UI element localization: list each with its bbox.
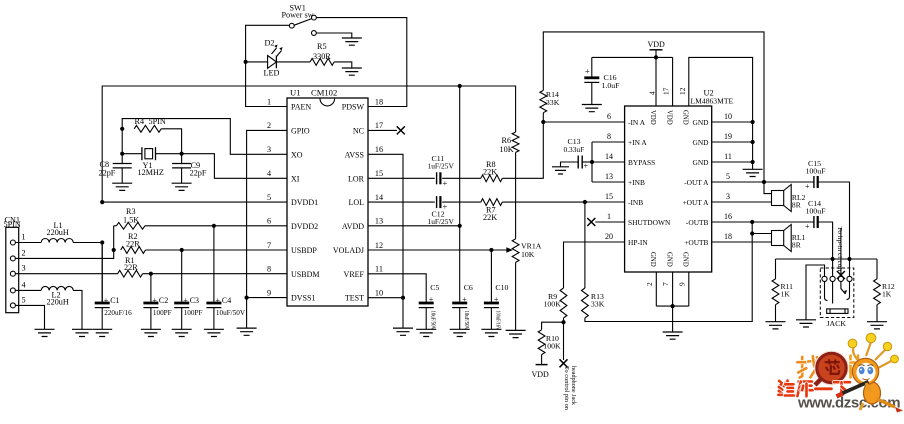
wire VDD rail to C16 and pin17: [592, 56, 673, 58]
wire DVSS1 row: [247, 297, 287, 299]
connector CN1 5PIN: [6, 227, 19, 312]
svg-text:8: 8: [607, 132, 611, 141]
ground at R11: [766, 322, 786, 329]
ground at R5: [342, 68, 362, 75]
svg-text:16: 16: [724, 212, 732, 221]
watermark zhao char: [800, 357, 803, 378]
svg-text:+: +: [443, 178, 448, 188]
svg-text:CM102: CM102: [311, 87, 337, 97]
svg-text:+: +: [805, 182, 810, 191]
svg-text:VDD: VDD: [532, 370, 550, 379]
svg-text:LOR: LOR: [348, 174, 365, 183]
node TEST junction: [401, 296, 405, 300]
node GND bus junction: [671, 304, 675, 308]
svg-text:100PF: 100PF: [184, 309, 203, 317]
ground at L2: [72, 329, 92, 336]
wire LOL row: [368, 201, 435, 203]
wire R2 to USBDP: [145, 249, 287, 251]
wire DVSS to ground: [246, 298, 248, 329]
LED D2: [268, 56, 277, 69]
crystal Y1 12MHZ: [122, 153, 142, 155]
node R2 left junction: [112, 248, 116, 252]
ground at VR1A: [506, 330, 526, 337]
svg-text:10: 10: [724, 112, 732, 121]
wire CN1 pin2 jog to R2: [15, 250, 113, 258]
svg-text:1uF/25V: 1uF/25V: [428, 217, 455, 226]
svg-text:C5: C5: [430, 283, 439, 292]
U2 pin 15 -INB wire: [585, 201, 625, 203]
ground at C4: [204, 329, 224, 336]
svg-text:330R: 330R: [313, 52, 331, 61]
svg-text:AVDD: AVDD: [342, 222, 364, 231]
svg-text:100uF: 100uF: [806, 166, 827, 175]
wire AVSS to ground vertical: [368, 154, 403, 297]
svg-text:100uF: 100uF: [806, 207, 827, 216]
node R4 left: [120, 127, 124, 131]
watermark magnifier: [817, 354, 845, 382]
svg-text:11: 11: [724, 152, 732, 161]
ground at C13: [552, 167, 569, 174]
capacitor C3 100PF: [181, 250, 183, 302]
svg-text:GPIO: GPIO: [291, 126, 310, 135]
svg-text:LM4863MTE: LM4863MTE: [691, 97, 734, 106]
svg-text:DVDD1: DVDD1: [291, 198, 318, 207]
capacitor C6 10uF/50V: [452, 302, 467, 305]
wire -OUTB to speaker RL1: [751, 222, 753, 234]
svg-text:16: 16: [375, 145, 383, 154]
wire CN1 pin5 to ground: [15, 305, 44, 329]
wire SW1 to PDSW pin18: [316, 18, 407, 107]
speaker RL2 8R: [772, 191, 784, 206]
ground at C2: [141, 329, 161, 336]
jack contact 2: [830, 276, 835, 281]
svg-text:220uH: 220uH: [47, 228, 69, 237]
wire TEST row: [368, 297, 403, 299]
svg-text:+OUTB: +OUTB: [684, 238, 708, 247]
svg-text:7: 7: [661, 282, 670, 286]
wire R5 to ground: [334, 62, 352, 68]
ground at DVSS1: [237, 328, 257, 335]
svg-text:GND: GND: [682, 110, 689, 125]
capacitor C14 100uF: [813, 216, 815, 228]
wire R4 right down: [161, 129, 181, 154]
resistor R3 1.5K: [114, 225, 117, 227]
ground at C3: [172, 329, 192, 336]
svg-text:XO: XO: [291, 150, 303, 159]
wire C11 to R8: [442, 177, 481, 179]
svg-text:+ C3: + C3: [183, 296, 199, 305]
node -INA junction: [541, 120, 545, 124]
node C15 rail junction: [847, 257, 851, 261]
svg-text:33K: 33K: [591, 300, 605, 309]
wire VDD rail top: [102, 86, 515, 202]
watermark pian char: [848, 356, 852, 378]
wire R13 to -OUTB vertical: [585, 234, 752, 322]
wire C12 to R7: [442, 201, 481, 203]
resistor R13 33K: [582, 288, 589, 318]
capacitor C8 22pF: [121, 154, 123, 164]
node R9 bottom junction: [563, 318, 565, 322]
svg-text:+ C4: + C4: [215, 296, 231, 305]
resistor R14 33K: [540, 90, 547, 112]
wire VOLADJ row: [368, 249, 511, 251]
svg-text:10: 10: [375, 288, 383, 297]
svg-text:To hp-in circuit: To hp-in circuit: [836, 227, 842, 272]
node C2 junction: [149, 272, 153, 276]
CN1 pin 1: [10, 240, 15, 245]
wire U2 pin17 drop: [672, 57, 674, 106]
ground at C16: [582, 105, 602, 112]
wire PDSW box to R14: [543, 32, 764, 182]
wire GND bus to ground: [672, 306, 674, 332]
svg-text:11: 11: [375, 265, 383, 274]
ground at jack pin1: [796, 320, 816, 327]
wire U2 pin12 GND route: [689, 57, 753, 121]
svg-text:+ C1: + C1: [104, 296, 120, 305]
svg-text:0.33uF: 0.33uF: [564, 145, 585, 154]
svg-text:100K: 100K: [543, 342, 561, 351]
svg-text:PAEN: PAEN: [291, 103, 311, 112]
X no-connect hp-in: [837, 271, 845, 279]
svg-text:GND: GND: [692, 118, 709, 127]
connector JACK dashed outline: [820, 268, 854, 318]
node C4 junction: [212, 224, 216, 228]
svg-text:22R: 22R: [124, 263, 138, 272]
svg-text:12: 12: [375, 241, 383, 250]
node AVDD junction: [458, 224, 462, 228]
svg-text:XI: XI: [291, 174, 300, 183]
CN1 pin 2: [10, 256, 15, 261]
capacitor C16 1.0uF: [591, 57, 593, 76]
node C13 junction: [590, 160, 594, 164]
ground at C10: [481, 329, 501, 336]
svg-text:5PIN: 5PIN: [149, 117, 166, 126]
svg-text:8R: 8R: [792, 201, 802, 210]
wire C14 to jack rail: [818, 222, 833, 259]
svg-text:C10: C10: [495, 283, 508, 292]
jack contact 2 stub: [832, 259, 834, 276]
capacitor C13 0.33uF: [582, 161, 592, 163]
svg-text:100PF: 100PF: [153, 309, 172, 317]
ground at TEST: [393, 328, 413, 335]
capacitor C4 10uF/50V: [213, 226, 215, 302]
svg-text:2: 2: [22, 248, 26, 257]
svg-text:DVDD2: DVDD2: [291, 222, 318, 231]
svg-text:-IN A: -IN A: [628, 118, 646, 127]
node -OUTA junction: [762, 180, 766, 184]
U2 pin 18 +OUTB wire: [712, 241, 772, 243]
svg-text:Power sw: Power sw: [282, 10, 314, 19]
svg-text:1.5K: 1.5K: [123, 215, 139, 224]
svg-text:+IN A: +IN A: [628, 138, 647, 147]
node crystal left: [120, 152, 124, 156]
svg-text:+OUT A: +OUT A: [682, 198, 709, 207]
jack contact 4 stub: [849, 259, 851, 276]
svg-text:R6: R6: [502, 136, 512, 145]
svg-text:U1: U1: [290, 87, 301, 97]
svg-text:-INB: -INB: [628, 198, 643, 207]
node DVSS junction: [245, 296, 249, 300]
svg-text:10uF/50V: 10uF/50V: [216, 309, 246, 317]
jack pin 1 to ground: [806, 265, 825, 320]
svg-text:100K: 100K: [544, 300, 562, 309]
capacitor C5 10uF/50V: [419, 302, 434, 305]
svg-text:1uF/25V: 1uF/25V: [428, 162, 455, 171]
jack internal contacts: [825, 282, 828, 301]
svg-text:C6: C6: [464, 283, 473, 292]
wire -OUTA to speaker RL2: [764, 182, 772, 194]
svg-text:+: +: [805, 222, 810, 231]
node crystal right: [180, 152, 184, 156]
svg-text:3: 3: [22, 264, 26, 273]
svg-text:+ C2: + C2: [152, 296, 168, 305]
capacitor C12 1uF/25V: [436, 196, 438, 208]
svg-text:4: 4: [22, 280, 26, 289]
node -OUTB junction: [750, 220, 754, 224]
wire XO loop top: [122, 119, 287, 155]
U2 pin 20 HP-IN wire: [564, 242, 625, 288]
ground at C6: [450, 329, 470, 336]
potentiometer VR1A 10K: [512, 239, 519, 263]
svg-text:6: 6: [267, 217, 271, 226]
resistor R11 1K: [775, 259, 777, 279]
svg-text:BYPASS: BYPASS: [628, 158, 655, 167]
svg-text:8: 8: [267, 265, 271, 274]
svg-text:NC: NC: [353, 126, 364, 135]
svg-text:22R: 22R: [126, 239, 140, 248]
capacitor C2 100PF: [150, 274, 152, 302]
node DVDD1 rail junction: [100, 200, 104, 204]
svg-text:DVSS1: DVSS1: [291, 294, 315, 303]
jack contact 4: [847, 276, 852, 281]
svg-text:AVSS: AVSS: [345, 150, 364, 159]
svg-text:VOLADJ: VOLADJ: [333, 246, 364, 255]
power VDD at R10: [541, 355, 543, 365]
U2 pin 14 BYPASS wire: [592, 161, 625, 163]
svg-text:5: 5: [267, 193, 271, 202]
wire R9 to R10: [542, 322, 564, 330]
svg-text:12MHZ: 12MHZ: [138, 168, 164, 177]
svg-text:+: +: [462, 295, 467, 304]
CN1 pin 3: [10, 271, 15, 276]
inductor L1 220uH: [41, 239, 73, 243]
wire CN1 pin1 to L1: [15, 242, 41, 244]
resistor R6 10K: [515, 131, 517, 133]
svg-text:+: +: [584, 162, 589, 171]
wire -OUTB to C14: [752, 221, 814, 223]
X no-connect headphone control: [560, 359, 568, 367]
wire crystal row left: [121, 129, 123, 154]
resistor R2 22R: [121, 247, 146, 254]
capacitor C1 220uF/16: [101, 243, 103, 302]
node VDD-rail / AVDD junction: [458, 84, 462, 88]
jack contact 3: [838, 276, 843, 281]
svg-text:6: 6: [607, 112, 611, 121]
wire GPIO to DVSS vertical: [247, 130, 287, 297]
svg-text:5: 5: [726, 172, 730, 181]
capacitor C11 1uF/25V: [436, 172, 438, 184]
capacitor C9 22pF: [181, 154, 183, 164]
svg-text:TEST: TEST: [345, 294, 364, 303]
op-amp U1 CM102 body: [287, 98, 368, 306]
svg-text:PDSW: PDSW: [342, 103, 365, 112]
svg-text:2: 2: [267, 121, 271, 130]
svg-text:18: 18: [724, 232, 732, 241]
wire hp-in line to jack: [840, 228, 842, 276]
wire R6 to VR1A: [515, 152, 517, 238]
resistor R9 100K: [560, 288, 567, 318]
svg-text:15: 15: [375, 169, 383, 178]
resistor R10 100K: [538, 330, 545, 355]
ground at U2 GND pins: [743, 169, 763, 176]
svg-text:1K: 1K: [781, 290, 791, 299]
svg-text:GND: GND: [649, 252, 656, 267]
watermark weikuyixia text: [779, 381, 782, 387]
svg-text:JACK: JACK: [827, 319, 847, 328]
ground at U2 bottom: [663, 332, 683, 339]
U1 pin 17 NC stub with X: [368, 129, 397, 131]
node C14 rail junction: [831, 257, 835, 261]
svg-text:22pF: 22pF: [99, 168, 116, 177]
wire SW1 lower throw to ground: [316, 33, 352, 38]
wire R9 junction down to X: [563, 322, 565, 360]
wire R12 to ground: [876, 305, 878, 322]
U2 pin 13 +INB wire: [592, 181, 625, 183]
svg-text:14: 14: [375, 193, 383, 202]
svg-text:GND: GND: [692, 158, 709, 167]
speaker RL1 8R: [772, 231, 784, 246]
svg-text:13: 13: [605, 172, 613, 181]
CN1 pin 5: [10, 303, 15, 308]
wire -INB to R13: [584, 202, 586, 288]
svg-text:10K: 10K: [500, 145, 514, 154]
svg-text:HP-IN: HP-IN: [628, 238, 648, 247]
wire L1 to rail: [73, 242, 102, 244]
svg-text:+: +: [585, 66, 590, 76]
svg-text:VREF: VREF: [344, 270, 365, 279]
svg-text:9: 9: [267, 288, 271, 297]
svg-text:1: 1: [22, 233, 26, 242]
watermark mascot: [837, 333, 904, 412]
wire DVDD1 row: [102, 201, 287, 203]
svg-text:220uF/16: 220uF/16: [104, 309, 132, 317]
svg-text:9: 9: [678, 282, 687, 286]
svg-text:10uF/50V: 10uF/50V: [463, 311, 470, 331]
svg-text:17: 17: [661, 87, 670, 95]
svg-text:LOL: LOL: [348, 198, 364, 207]
ground at C1: [92, 329, 112, 336]
svg-text:15: 15: [605, 192, 613, 201]
ground at C5: [416, 329, 436, 336]
svg-text:To control pin on: To control pin on: [563, 366, 569, 410]
wire VREF to C5: [368, 274, 426, 302]
svg-text:1: 1: [607, 212, 611, 221]
svg-text:18: 18: [375, 97, 383, 106]
svg-text:10K: 10K: [521, 250, 535, 259]
wire -INA row: [543, 121, 624, 123]
svg-text:5: 5: [22, 295, 26, 304]
svg-text:VDD: VDD: [649, 110, 656, 125]
op-amp U2 LM4863MTE body: [625, 106, 712, 272]
switch SW1 Power sw: [312, 15, 317, 20]
svg-text:GND: GND: [682, 252, 689, 267]
wire U2 GND pins to ground: [712, 121, 753, 123]
U2 pin 16 -OUTB wire: [712, 221, 753, 223]
wire CN1 pin3 to R1: [15, 273, 117, 275]
svg-text:1: 1: [267, 97, 271, 106]
resistor R8 22K: [481, 175, 503, 182]
node -INB junction: [583, 200, 587, 204]
svg-text:7: 7: [267, 241, 271, 250]
U2 pin 5 -OUTA wire: [712, 181, 764, 183]
capacitor C15 100uF: [813, 176, 815, 188]
resistor R7 22K: [481, 199, 503, 206]
resistor R1 22R: [118, 270, 143, 277]
svg-text:4: 4: [648, 91, 657, 95]
wire AVDD vertical rail: [459, 86, 461, 302]
svg-text:19: 19: [724, 132, 732, 141]
svg-text:LED: LED: [264, 69, 280, 78]
wire R3 to DVDD2: [145, 225, 287, 227]
wire -OUTA to C15: [764, 181, 814, 183]
resistor R4 5PIN: [134, 125, 161, 132]
U2 pin 1 SHUTDOWN stub with X: [595, 221, 624, 223]
wire SW1 pole to PAEN vertical: [246, 25, 290, 106]
U2 pin 8 +INA wire: [592, 141, 625, 143]
svg-text:D2: D2: [265, 38, 275, 47]
node L1 rail junction: [100, 240, 104, 244]
ground at C9: [172, 183, 192, 190]
wire C15 to jack rail: [818, 182, 850, 259]
node VDD junction: [654, 55, 658, 59]
wire R11 to ground: [775, 305, 777, 322]
svg-text:R5: R5: [317, 42, 327, 51]
svg-text:+: +: [494, 295, 499, 304]
resistor R12 1K: [876, 259, 878, 279]
svg-text:USBDM: USBDM: [291, 270, 319, 279]
svg-text:22K: 22K: [483, 213, 497, 222]
node C3 junction: [180, 248, 184, 252]
svg-text:22K: 22K: [483, 167, 497, 176]
svg-text:22pF: 22pF: [190, 168, 207, 177]
svg-text:headphone Jack: headphone Jack: [570, 366, 576, 405]
wire TEST to ground: [402, 298, 404, 328]
wire L2 to ground: [73, 290, 82, 329]
svg-text:4: 4: [267, 169, 271, 178]
ground at R12: [867, 322, 887, 329]
wire jack top rail: [776, 258, 878, 260]
svg-text:VDD: VDD: [665, 110, 672, 125]
svg-text:20: 20: [605, 232, 613, 241]
svg-text:5PIN: 5PIN: [4, 220, 21, 229]
svg-text:+INB: +INB: [628, 178, 645, 187]
svg-text:1K: 1K: [882, 290, 892, 299]
wire R3 left vertical: [113, 226, 115, 250]
svg-text:3: 3: [726, 192, 730, 201]
node LED anode junction: [244, 60, 248, 64]
CN1 pin 4: [10, 288, 15, 293]
jack contact 1: [822, 276, 827, 281]
svg-text:-OUTB: -OUTB: [686, 218, 709, 227]
wire U2 pin4 drop: [655, 57, 657, 106]
svg-text:GND: GND: [692, 138, 709, 147]
wire LED cathode to R5: [276, 61, 310, 63]
ground at SW1: [342, 38, 362, 45]
ground at C8: [112, 183, 132, 190]
inductor L2 220uH: [41, 286, 73, 290]
svg-text:+: +: [429, 295, 434, 304]
svg-text:R4: R4: [135, 117, 145, 126]
